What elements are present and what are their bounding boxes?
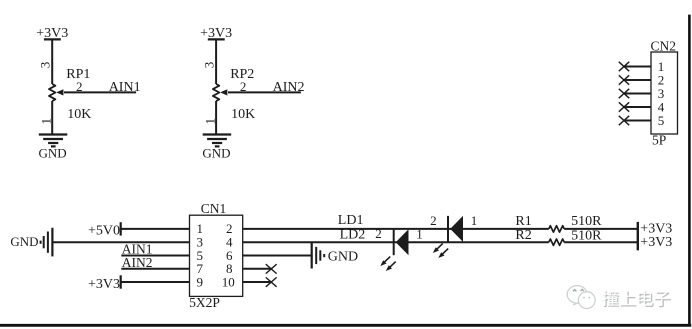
resistor RP1 (potentiometer body) bbox=[49, 84, 55, 101]
RP2 wiper arrow wire (net AIN2) bbox=[228, 91, 301, 93]
ground (RP1) bbox=[39, 133, 68, 135]
svg-text:CN1: CN1 bbox=[201, 201, 227, 216]
no-connect X CN2 pin 4 bbox=[619, 102, 629, 111]
svg-text:+3V3: +3V3 bbox=[36, 26, 68, 41]
svg-text:10K: 10K bbox=[67, 107, 91, 122]
wire AIN1 to CN1 pin 5 bbox=[121, 255, 189, 257]
svg-text:3: 3 bbox=[201, 62, 216, 69]
svg-text:R2: R2 bbox=[515, 228, 531, 243]
svg-text:+3V3: +3V3 bbox=[88, 277, 120, 292]
wire +3V3 to CN1 pin 9 bbox=[121, 281, 190, 283]
svg-text:1: 1 bbox=[39, 118, 54, 125]
wire CN2 pin 1 bbox=[624, 66, 651, 68]
svg-text:+3V3: +3V3 bbox=[640, 235, 672, 250]
sheet border bottom bbox=[0, 324, 691, 327]
sheet border right bbox=[688, 15, 691, 327]
svg-text:5X2P: 5X2P bbox=[189, 295, 220, 310]
svg-text:1: 1 bbox=[416, 226, 423, 241]
svg-text:+5V0: +5V0 bbox=[88, 223, 120, 238]
svg-text:GND: GND bbox=[10, 234, 38, 249]
watermark logo tail bbox=[573, 303, 578, 305]
wire AIN2 to CN1 pin 7 bbox=[121, 268, 189, 270]
wire RP1 pin 1 to ground bbox=[51, 101, 53, 134]
LED LD1 cathode bar bbox=[447, 216, 449, 242]
wire +5V0 to CN1 pin 1 bbox=[121, 228, 190, 230]
no-connect X CN2 pin 2 bbox=[619, 75, 629, 84]
power +3V3 (RP1 top) bbox=[44, 38, 61, 40]
svg-text:LD1: LD1 bbox=[338, 213, 364, 228]
svg-text:CN2: CN2 bbox=[651, 39, 677, 54]
wire CN1 pin 6 to right GND bbox=[243, 255, 312, 257]
svg-text:1: 1 bbox=[202, 118, 217, 125]
resistor RP2 (potentiometer body) bbox=[213, 84, 219, 101]
no-connect X CN2 pin 5 bbox=[619, 116, 629, 125]
wire CN1 pin 10 bbox=[243, 281, 272, 283]
svg-text:2: 2 bbox=[375, 226, 382, 241]
svg-text:AIN2: AIN2 bbox=[122, 255, 153, 270]
svg-text:3: 3 bbox=[38, 62, 53, 69]
svg-text:LD2: LD2 bbox=[340, 227, 366, 242]
LED LD1 emission arrows bbox=[436, 244, 449, 256]
no-connect X CN1 pin 10 bbox=[266, 277, 277, 286]
wire +3V3 to RP1 pin 3 bbox=[51, 39, 53, 84]
LED LD2 emission arrows bbox=[383, 257, 396, 269]
wire CN2 pin 3 bbox=[624, 93, 651, 95]
svg-text:9: 9 bbox=[197, 274, 204, 289]
svg-text:5: 5 bbox=[658, 113, 665, 128]
power ground (right GND, rotated) bbox=[311, 243, 313, 269]
svg-text:1: 1 bbox=[471, 213, 478, 228]
power ground (left GND) bbox=[40, 241, 42, 244]
wire CN2 pin 5 bbox=[624, 120, 651, 122]
resistor R2 bbox=[549, 239, 564, 245]
svg-text:+3V3: +3V3 bbox=[200, 26, 232, 41]
port +3V3 tick (CN1 pin 9) bbox=[120, 275, 122, 288]
wire GND to CN1 pin 3 bbox=[52, 241, 189, 243]
svg-text:GND: GND bbox=[39, 146, 67, 161]
RP1 wiper arrow wire (net AIN1) bbox=[64, 91, 136, 93]
LED LD2 cathode bar bbox=[393, 229, 395, 255]
power +3V3 (RP2 top) bbox=[208, 38, 225, 40]
svg-text:5P: 5P bbox=[652, 133, 666, 148]
wire CN2 pin 4 bbox=[624, 106, 651, 108]
port +5V0 tick bbox=[120, 222, 122, 235]
LED LD2 triangle bbox=[396, 229, 409, 255]
watermark text 撞上电子 (white face) bbox=[602, 290, 669, 306]
no-connect X CN1 pin 8 bbox=[266, 264, 277, 273]
svg-text:10: 10 bbox=[222, 274, 235, 289]
svg-text:10K: 10K bbox=[231, 107, 255, 122]
ground (RP2) bbox=[203, 133, 232, 135]
port +3V3 rail tick (right) bbox=[637, 222, 639, 250]
watermark text 撞上电子 (shadow) bbox=[604, 291, 671, 307]
wire CN1 pin 2 to LED LD1 / resistor R1 / +3V3 rail bbox=[243, 228, 549, 230]
svg-text:AIN1: AIN1 bbox=[109, 80, 141, 95]
resistor R1 bbox=[549, 226, 564, 232]
LED LD1 triangle bbox=[450, 216, 463, 242]
watermark logo circles bbox=[567, 286, 595, 309]
no-connect X CN2 pin 1 bbox=[619, 62, 629, 71]
wire CN1 pin 8 bbox=[243, 268, 272, 270]
svg-text:GND: GND bbox=[202, 146, 230, 161]
connector CN1 box bbox=[190, 215, 243, 296]
svg-text:2: 2 bbox=[430, 213, 437, 228]
svg-text:2: 2 bbox=[76, 79, 83, 94]
svg-text:R1: R1 bbox=[515, 214, 531, 229]
wire RP2 pin 1 to ground bbox=[215, 101, 217, 134]
svg-text:GND: GND bbox=[328, 250, 358, 265]
svg-text:510R: 510R bbox=[571, 214, 602, 229]
wire CN1 pin 4 to LED LD2 / resistor R2 / +3V3 rail bbox=[243, 241, 549, 243]
svg-text:510R: 510R bbox=[571, 228, 602, 243]
wire CN2 pin 2 bbox=[624, 79, 651, 81]
svg-text:AIN2: AIN2 bbox=[273, 80, 305, 95]
connector CN2 box bbox=[651, 52, 678, 134]
watermark logo face marks bbox=[573, 289, 590, 297]
no-connect X CN2 pin 3 bbox=[619, 89, 629, 98]
svg-text:2: 2 bbox=[240, 79, 247, 94]
wire +3V3 to RP2 pin 3 bbox=[215, 39, 217, 84]
